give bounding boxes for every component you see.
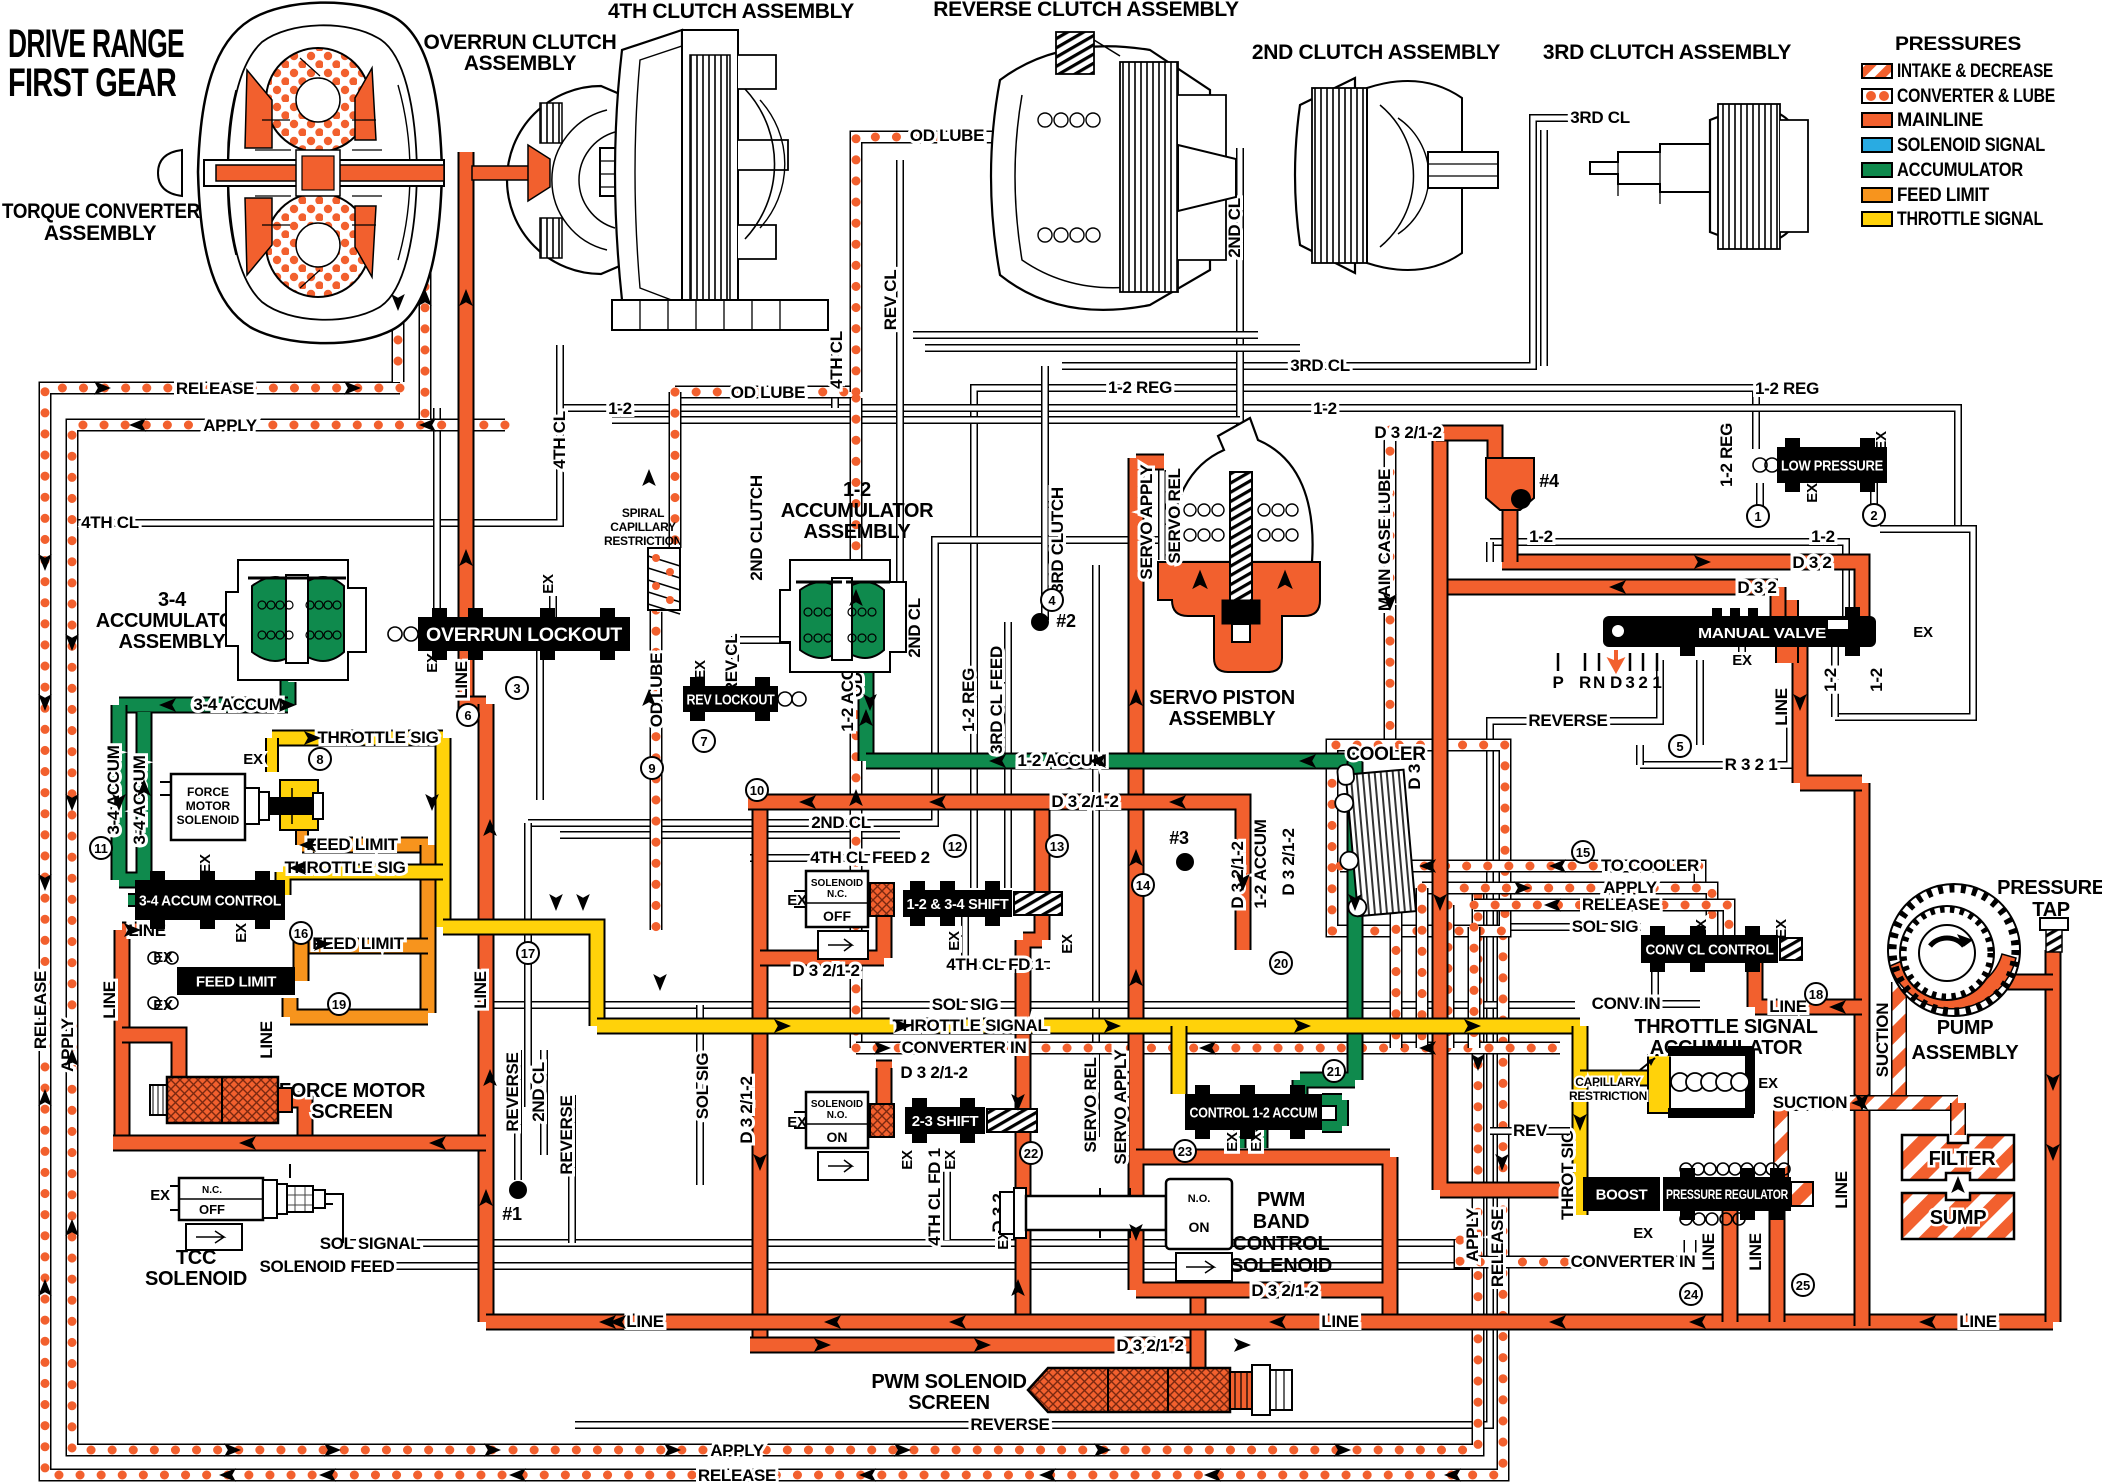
- legend feed limit: [1862, 188, 1892, 202]
- wire APPLY conv row: [1422, 888, 1712, 935]
- svg-text:FORCE: FORCE: [187, 785, 229, 799]
- svg-text:EX: EX: [942, 1150, 959, 1170]
- wire throttle sig row 1: [272, 730, 443, 747]
- svg-text:2: 2: [1638, 673, 1647, 692]
- svg-text:ASSEMBLY: ASSEMBLY: [119, 631, 227, 653]
- svg-text:DRIVE RANGE: DRIVE RANGE: [8, 22, 184, 66]
- svg-text:1-2: 1-2: [1867, 668, 1886, 692]
- svg-text:CAPILLARY: CAPILLARY: [1575, 1075, 1641, 1089]
- svg-text:OVERRUN CLUTCH: OVERRUN CLUTCH: [424, 31, 617, 54]
- wire manual valve line: [1800, 647, 1862, 783]
- svg-text:4TH CL: 4TH CL: [827, 331, 846, 389]
- svg-text:20: 20: [1274, 956, 1288, 971]
- svg-text:THROTTLE SIG: THROTTLE SIG: [284, 858, 405, 877]
- svg-text:OD LUBE: OD LUBE: [910, 126, 984, 145]
- wire D 3 2/1-2 row: [748, 802, 1243, 950]
- wire feed limit vertical: [420, 845, 437, 1013]
- wire 4TH CL channel left: [78, 345, 560, 523]
- wire converter apply stub: [419, 160, 432, 419]
- valve 3-4 ACCUM CONTROL: [135, 880, 285, 920]
- svg-text:16: 16: [294, 926, 308, 941]
- svg-text:SOL SIG: SOL SIG: [1572, 917, 1639, 936]
- wire 1-2 accum vertical: [1300, 761, 1355, 1096]
- svg-text:FIRST GEAR: FIRST GEAR: [8, 61, 177, 105]
- svg-text:23: 23: [1178, 1144, 1192, 1159]
- svg-text:RELEASE: RELEASE: [31, 971, 50, 1049]
- wire SERVO REL channel: [1092, 565, 1100, 1137]
- svg-text:ON: ON: [1189, 1219, 1210, 1235]
- svg-text:1-2 & 3-4 SHIFT: 1-2 & 3-4 SHIFT: [907, 896, 1009, 913]
- svg-text:LINE: LINE: [1959, 1312, 1997, 1331]
- svg-text:SOL SIG: SOL SIG: [932, 995, 999, 1014]
- svg-text:1: 1: [1652, 673, 1661, 692]
- svg-text:#2: #2: [1056, 611, 1076, 631]
- svg-text:OD LUBE: OD LUBE: [731, 383, 805, 402]
- svg-text:3: 3: [1625, 673, 1634, 692]
- component overrun clutch assembly: [472, 86, 673, 274]
- flow arrows border extra: [38, 554, 52, 571]
- wire 4TH CL feed channel: [831, 335, 839, 408]
- svg-text:4TH CLUTCH ASSEMBLY: 4TH CLUTCH ASSEMBLY: [608, 0, 854, 23]
- svg-text:6: 6: [464, 708, 471, 723]
- svg-text:INTAKE & DECREASE: INTAKE & DECREASE: [1897, 61, 2053, 82]
- svg-text:APPLY: APPLY: [203, 416, 258, 435]
- svg-text:P: P: [1552, 673, 1563, 692]
- component torque converter assembly: [158, 3, 444, 344]
- svg-text:7: 7: [700, 734, 707, 749]
- wire force motor nozzle yellow: [280, 780, 318, 830]
- solenoid TCC: [179, 1178, 263, 1220]
- svg-text:CONV IN: CONV IN: [1592, 994, 1661, 1013]
- svg-text:EX: EX: [243, 751, 263, 768]
- wire CONVERTER IN row: [856, 1042, 1560, 1055]
- wire force motor screen bottom line: [113, 1135, 486, 1152]
- component 3-4 accumulator assembly: [226, 560, 366, 680]
- wire TCC sol signal channel: [330, 1243, 1470, 1266]
- svg-text:CAPILLARY: CAPILLARY: [610, 520, 676, 534]
- svg-text:3: 3: [513, 681, 520, 696]
- wire throttle sig to solenoid: [265, 738, 279, 772]
- wire servo apply main vertical: [1136, 458, 1164, 1157]
- svg-text:OD LUBE: OD LUBE: [647, 653, 666, 727]
- svg-text:RESTRICTION: RESTRICTION: [1569, 1089, 1647, 1103]
- svg-text:3RD CL: 3RD CL: [1570, 108, 1630, 127]
- wire 3-4 accum row: [119, 697, 288, 714]
- valve BOOST and PRESSURE REGULATOR: [1583, 1177, 1660, 1211]
- svg-text:3-4 ACCUM: 3-4 ACCUM: [193, 695, 282, 714]
- wire D 3 2 row 2: [1445, 587, 1778, 616]
- svg-text:LINE: LINE: [452, 661, 471, 699]
- component throttle signal accumulator: [1668, 1046, 1754, 1056]
- node selector ticks: [1557, 653, 1560, 671]
- wire solenoid coupling drain upper: [760, 906, 884, 958]
- svg-text:21: 21: [1327, 1064, 1341, 1079]
- svg-text:LINE: LINE: [626, 1312, 664, 1331]
- component 1-2 accumulator assembly: [780, 560, 906, 672]
- component sump: [1902, 1193, 2014, 1239]
- svg-text:1-2 REG: 1-2 REG: [1755, 379, 1819, 398]
- svg-text:REV CL: REV CL: [881, 270, 900, 331]
- component pressure tap bolt: [2040, 918, 2068, 930]
- svg-text:MOTOR: MOTOR: [186, 799, 231, 813]
- legend converter and lube: [1862, 89, 1892, 103]
- svg-text:N.C.: N.C.: [827, 889, 847, 900]
- svg-text:SPIRAL: SPIRAL: [622, 506, 664, 520]
- wire rev channel: [1490, 1127, 1570, 1135]
- wire feed limit row 1: [302, 837, 428, 854]
- svg-text:ASSEMBLY: ASSEMBLY: [1912, 1042, 2020, 1064]
- svg-text:1-2: 1-2: [1529, 527, 1553, 546]
- svg-text:RESTRICTION: RESTRICTION: [604, 534, 682, 548]
- legend intake and decrease: [1862, 64, 1892, 78]
- wire throttle signal main row: [443, 927, 597, 1026]
- svg-text:EX: EX: [1804, 483, 1821, 503]
- svg-text:1-2: 1-2: [1821, 668, 1840, 692]
- wire throttle sig drop: [435, 738, 452, 927]
- svg-text:ACCUMULATOR: ACCUMULATOR: [781, 500, 934, 522]
- svg-text:SOL SIG: SOL SIG: [693, 1053, 712, 1120]
- svg-text:THROTTLE SIGNAL: THROTTLE SIGNAL: [1897, 209, 2044, 230]
- svg-text:ASSEMBLY: ASSEMBLY: [464, 52, 577, 75]
- svg-text:THROTTLE SIGNAL: THROTTLE SIGNAL: [892, 1016, 1047, 1035]
- svg-text:REV LOCKOUT: REV LOCKOUT: [687, 691, 775, 708]
- svg-text:LINE: LINE: [1769, 997, 1807, 1016]
- svg-text:SOLENOID FEED: SOLENOID FEED: [260, 1257, 395, 1276]
- svg-text:EX: EX: [1059, 934, 1076, 954]
- svg-text:4TH CL: 4TH CL: [81, 513, 139, 532]
- svg-text:RELEASE: RELEASE: [1488, 1209, 1507, 1287]
- svg-text:EX: EX: [153, 997, 173, 1014]
- svg-text:2ND CL: 2ND CL: [905, 598, 924, 658]
- svg-text:2ND CLUTCH ASSEMBLY: 2ND CLUTCH ASSEMBLY: [1252, 41, 1501, 64]
- wire boost line stubs: [1730, 1211, 1777, 1322]
- svg-text:FILTER: FILTER: [1929, 1148, 1997, 1170]
- wire D 3 2 row 1: [1502, 562, 1862, 618]
- svg-text:CONV CL CONTROL: CONV CL CONTROL: [1646, 941, 1774, 958]
- svg-text:D 3 2/1-2: D 3 2/1-2: [900, 1063, 967, 1082]
- svg-text:D 3 2/1-2: D 3 2/1-2: [1116, 1336, 1183, 1355]
- wire feed limit stub to valve: [293, 926, 310, 981]
- component reverse clutch assembly: [991, 32, 1236, 310]
- svg-text:11: 11: [94, 841, 108, 856]
- wire conv nest verticals: [1390, 866, 1403, 1048]
- svg-text:1-2 ACCUM: 1-2 ACCUM: [1251, 819, 1270, 908]
- wire D 3 2/1-2 into number4: [1436, 433, 1495, 460]
- wire OD LUBE down column: [850, 398, 863, 1048]
- svg-text:EX: EX: [899, 1150, 916, 1170]
- svg-text:#4: #4: [1539, 471, 1559, 491]
- svg-text:ON: ON: [827, 1129, 848, 1145]
- wire 3RD CL FEED channel: [1004, 622, 1012, 888]
- svg-text:BAND: BAND: [1253, 1211, 1310, 1233]
- svg-text:3RD CLUTCH ASSEMBLY: 3RD CLUTCH ASSEMBLY: [1543, 41, 1792, 64]
- svg-text:REVERSE: REVERSE: [503, 1052, 522, 1131]
- wire throt sig vertical right: [1572, 1026, 1589, 1215]
- wire extra feed row: [560, 831, 900, 839]
- svg-text:SERVO PISTON: SERVO PISTON: [1149, 687, 1295, 709]
- svg-text:1-2 ACC: 1-2 ACC: [838, 668, 857, 731]
- svg-text:LOW PRESSURE: LOW PRESSURE: [1781, 457, 1883, 474]
- svg-text:RELEASE: RELEASE: [176, 379, 254, 398]
- wire control 1-2 accum green details: [1322, 1100, 1342, 1126]
- svg-text:EX: EX: [1913, 624, 1933, 641]
- svg-text:4: 4: [1048, 593, 1056, 608]
- wire sol sig tcc riser: [696, 1005, 704, 1185]
- wire OD LUBE riser: [856, 137, 1008, 392]
- wire number4 to D 3 2: [1502, 505, 1519, 562]
- svg-text:FEED LIMIT: FEED LIMIT: [196, 973, 276, 990]
- svg-text:14: 14: [1136, 878, 1151, 893]
- svg-text:CONVERTER IN: CONVERTER IN: [1571, 1252, 1696, 1271]
- svg-text:EX: EX: [197, 854, 214, 874]
- wire REVERSE long channel: [575, 660, 1660, 1425]
- svg-text:3-4: 3-4: [158, 589, 187, 611]
- svg-text:REVERSE: REVERSE: [1528, 711, 1607, 730]
- svg-text:LINE: LINE: [1699, 1233, 1718, 1271]
- node junction 2: [1031, 613, 1049, 631]
- svg-text:D 3 2/1-2: D 3 2/1-2: [1374, 423, 1441, 442]
- svg-text:OFF: OFF: [199, 1202, 225, 1217]
- svg-text:2ND CLUTCH: 2ND CLUTCH: [747, 475, 766, 581]
- svg-text:19: 19: [332, 997, 346, 1012]
- svg-text:APPLY: APPLY: [1463, 1207, 1482, 1262]
- legend throttle signal: [1862, 212, 1892, 226]
- valve CONV CL CONTROL: [1641, 935, 1778, 963]
- wire 4th cl fd1 channel: [943, 1153, 951, 1240]
- svg-text:24: 24: [1684, 1287, 1699, 1302]
- svg-text:3RD CL FEED: 3RD CL FEED: [987, 646, 1006, 754]
- wire 1-2 accum stem: [858, 655, 875, 761]
- wire APPLY lube border: [72, 425, 1478, 1450]
- wire feed limit loop bottom: [290, 998, 428, 1017]
- svg-text:MANUAL VALVE: MANUAL VALVE: [1698, 625, 1826, 642]
- component 4th clutch assembly: [612, 30, 828, 330]
- svg-text:N: N: [1593, 673, 1605, 692]
- svg-text:3-4 ACCUM CONTROL: 3-4 ACCUM CONTROL: [139, 892, 281, 909]
- node junction 3: [1176, 853, 1194, 871]
- wire conv cl control line: [1755, 963, 1862, 1007]
- svg-text:MAIN CASE LUBE: MAIN CASE LUBE: [1375, 469, 1394, 611]
- svg-text:REV: REV: [1513, 1121, 1548, 1140]
- svg-text:22: 22: [1024, 1146, 1038, 1161]
- svg-text:4TH CL FEED 2: 4TH CL FEED 2: [810, 848, 930, 867]
- svg-text:EX: EX: [1224, 1132, 1241, 1152]
- svg-text:COOLER: COOLER: [1346, 744, 1426, 765]
- svg-text:1-2 REG: 1-2 REG: [1717, 423, 1736, 487]
- svg-text:FEED LIMIT: FEED LIMIT: [306, 835, 398, 854]
- svg-text:1-2 REG: 1-2 REG: [1108, 378, 1172, 397]
- component pump assembly: [1888, 884, 2020, 1016]
- wire throttle sig branch control 1-2: [1171, 1026, 1188, 1094]
- wire manual valve EX stub: [1738, 647, 1746, 660]
- svg-text:N.C.: N.C.: [202, 1185, 222, 1196]
- svg-text:D 3 2/1-2: D 3 2/1-2: [737, 1076, 756, 1143]
- wire D 3 2 long vertical right: [1440, 433, 1560, 1190]
- wire 4TH CL FEED 2 channel: [750, 854, 903, 862]
- wire right 1-2 loop: [1835, 529, 1973, 717]
- svg-text:SCREEN: SCREEN: [908, 1392, 990, 1414]
- svg-text:REVERSE: REVERSE: [970, 1415, 1049, 1434]
- wire PWM loop: [1136, 1157, 1390, 1322]
- svg-text:PWM: PWM: [1257, 1189, 1305, 1211]
- svg-text:ASSEMBLY: ASSEMBLY: [1169, 708, 1277, 730]
- svg-text:PWM SOLENOID: PWM SOLENOID: [871, 1371, 1026, 1393]
- wire 1-2 REG channel: [974, 388, 1756, 888]
- wire 3-4 accum control green inlet: [128, 893, 140, 907]
- wire 3RD CL channel: [1062, 118, 1583, 366]
- wire 3-4 accum stem: [280, 660, 297, 705]
- svg-text:3-4 ACCUM: 3-4 ACCUM: [130, 755, 149, 844]
- svg-text:3RD CLUTCH: 3RD CLUTCH: [1048, 487, 1067, 593]
- component cooler radiator: [1332, 760, 1416, 918]
- svg-text:17: 17: [521, 946, 535, 961]
- svg-text:1: 1: [1754, 509, 1761, 524]
- svg-text:ASSEMBLY: ASSEMBLY: [44, 222, 157, 245]
- svg-text:CONTROL 1-2 ACCUM: CONTROL 1-2 ACCUM: [1190, 1104, 1318, 1121]
- wire 1-2 row mid right: [1490, 542, 1846, 616]
- svg-text:SOL SIGNAL: SOL SIGNAL: [320, 1234, 421, 1253]
- svg-text:SERVO REL: SERVO REL: [1165, 468, 1184, 563]
- svg-text:LINE: LINE: [471, 971, 490, 1009]
- wire low pressure stubs: [1760, 483, 1874, 516]
- svg-text:REVERSE: REVERSE: [557, 1095, 576, 1174]
- wire EX stub overrun lockout: [549, 596, 557, 617]
- component servo piston assembly: [1158, 418, 1320, 672]
- wire force motor solenoid gold outlet: [295, 824, 309, 845]
- wire 3RD CLUTCH channel: [1041, 366, 1049, 620]
- flow arrows: [459, 289, 473, 306]
- svg-text:OVERRUN LOCKOUT: OVERRUN LOCKOUT: [426, 625, 623, 646]
- wire D 3 2/1-2 vertical left: [752, 802, 769, 1345]
- wire line to force motor screen: [122, 1035, 179, 1077]
- wire 3-4 accum verticals: [119, 705, 160, 886]
- wire REV CL channel: [735, 160, 900, 686]
- svg-text:LINE: LINE: [1746, 1233, 1765, 1271]
- svg-text:SOLENOID: SOLENOID: [145, 1268, 247, 1290]
- svg-text:8: 8: [316, 752, 323, 767]
- svg-text:LINE: LINE: [1832, 1171, 1851, 1209]
- svg-text:2ND CL: 2ND CL: [811, 813, 871, 832]
- component force motor solenoid: [171, 774, 245, 840]
- svg-text:LINE: LINE: [1772, 688, 1791, 726]
- svg-text:1-2: 1-2: [1313, 399, 1337, 418]
- svg-text:D: D: [1610, 673, 1622, 692]
- svg-text:LINE: LINE: [100, 981, 119, 1019]
- svg-text:#3: #3: [1169, 828, 1189, 848]
- wire OD LUBE bottom row: [675, 386, 856, 399]
- wire 2ND CL channel: [528, 148, 1240, 823]
- node connector numbers: [1747, 505, 1769, 527]
- svg-text:D 3 2: D 3 2: [1737, 578, 1776, 597]
- svg-text:3RD CL: 3RD CL: [1290, 356, 1350, 375]
- svg-text:25: 25: [1796, 1278, 1810, 1293]
- svg-text:5: 5: [1676, 739, 1683, 754]
- svg-text:ACCUMULATOR: ACCUMULATOR: [1897, 160, 2023, 181]
- svg-text:RELEASE: RELEASE: [698, 1466, 776, 1483]
- svg-text:FEED LIMIT: FEED LIMIT: [1897, 185, 1990, 206]
- component force motor screen: [150, 1085, 167, 1115]
- svg-text:N.O.: N.O.: [1188, 1193, 1211, 1205]
- svg-text:18: 18: [1809, 987, 1823, 1002]
- wire pressure tap line: [2045, 950, 2062, 1322]
- wire misc top row: [612, 416, 1240, 424]
- svg-text:FORCE MOTOR: FORCE MOTOR: [279, 1080, 426, 1102]
- wire CONV IN stub: [1640, 963, 1700, 1004]
- svg-text:D 3 2/1-2: D 3 2/1-2: [792, 961, 859, 980]
- svg-text:10: 10: [750, 783, 764, 798]
- svg-text:SOLENOID SIGNAL: SOLENOID SIGNAL: [1897, 135, 2046, 156]
- svg-text:EX: EX: [150, 1187, 170, 1204]
- svg-text:4TH CL FD 1: 4TH CL FD 1: [946, 955, 1043, 974]
- wire D 3 2/1-2 bottom row: [750, 1337, 1198, 1354]
- svg-text:SERVO REL: SERVO REL: [1081, 1057, 1100, 1152]
- svg-text:SOLENOID: SOLENOID: [811, 1099, 863, 1110]
- svg-text:RELEASE: RELEASE: [1582, 895, 1660, 914]
- wire line left elbow: [122, 930, 165, 1143]
- wire pump outlet: [1999, 974, 2053, 991]
- svg-text:THROTTLE SIG: THROTTLE SIG: [317, 728, 438, 747]
- solenoid shift B NO: [806, 1092, 868, 1148]
- svg-text:PRESSURE: PRESSURE: [1997, 877, 2102, 899]
- wire converter release stub: [392, 150, 405, 382]
- svg-text:ASSEMBLY: ASSEMBLY: [804, 521, 912, 543]
- legend solenoid signal: [1862, 138, 1892, 152]
- svg-text:15: 15: [1576, 845, 1590, 860]
- wire TCC solenoid feed channel: [350, 1262, 1470, 1270]
- svg-text:TORQUE CONVERTER: TORQUE CONVERTER: [2, 200, 200, 223]
- svg-text:THROT SIG: THROT SIG: [1558, 1130, 1577, 1220]
- svg-text:3-4 ACCUM: 3-4 ACCUM: [104, 745, 123, 834]
- svg-text:EX: EX: [1732, 652, 1752, 669]
- valve 2-3 SHIFT: [905, 1107, 985, 1134]
- wire suction pump to filter: [1891, 982, 1907, 1097]
- svg-text:APPLY: APPLY: [710, 1441, 765, 1460]
- svg-text:SUCTION: SUCTION: [1873, 1003, 1892, 1077]
- svg-text:D 3 2/1-2: D 3 2/1-2: [1251, 1281, 1318, 1300]
- wire 1-2 to overrun lockout: [433, 408, 441, 617]
- wire servo apply channel stub: [1158, 470, 1166, 560]
- node junction 1: [509, 1181, 527, 1199]
- svg-text:CONTROL: CONTROL: [1233, 1233, 1330, 1255]
- wire line land through manual valve: [1775, 600, 1799, 663]
- wire SOL SIG long channel: [480, 1001, 1575, 1009]
- svg-text:EX: EX: [233, 923, 250, 943]
- svg-text:PRESSURES: PRESSURES: [1895, 34, 2021, 55]
- wire feed limit row 2: [295, 938, 428, 955]
- svg-text:D 3 2/1-2: D 3 2/1-2: [1051, 792, 1118, 811]
- wire suction from boost: [1773, 1103, 1789, 1209]
- svg-text:SOLENOID: SOLENOID: [811, 878, 863, 889]
- svg-text:SERVO APPLY: SERVO APPLY: [1137, 463, 1156, 579]
- svg-text:R: R: [1579, 673, 1591, 692]
- svg-text:9: 9: [648, 761, 655, 776]
- wire RELEASE lube border: [45, 388, 1503, 1475]
- wire SOL SIG conv nest: [1505, 923, 1641, 931]
- valve LOW PRESSURE: [1777, 447, 1887, 483]
- svg-text:1-2: 1-2: [608, 399, 632, 418]
- svg-text:2ND CL: 2ND CL: [1225, 198, 1244, 258]
- valve FEED LIMIT: [177, 967, 295, 995]
- svg-text:13: 13: [1050, 839, 1064, 854]
- wire PWM screen feed: [1190, 1290, 1207, 1372]
- svg-text:4TH CL: 4TH CL: [550, 411, 569, 469]
- svg-text:LINE: LINE: [1321, 1312, 1359, 1331]
- wire 4TH CL FD 2 channel: [536, 651, 544, 800]
- svg-text:N.O.: N.O.: [827, 1110, 848, 1121]
- legend accumulator: [1862, 163, 1892, 177]
- svg-text:#1: #1: [502, 1204, 522, 1224]
- component pwm solenoid screen: [1028, 1368, 1230, 1412]
